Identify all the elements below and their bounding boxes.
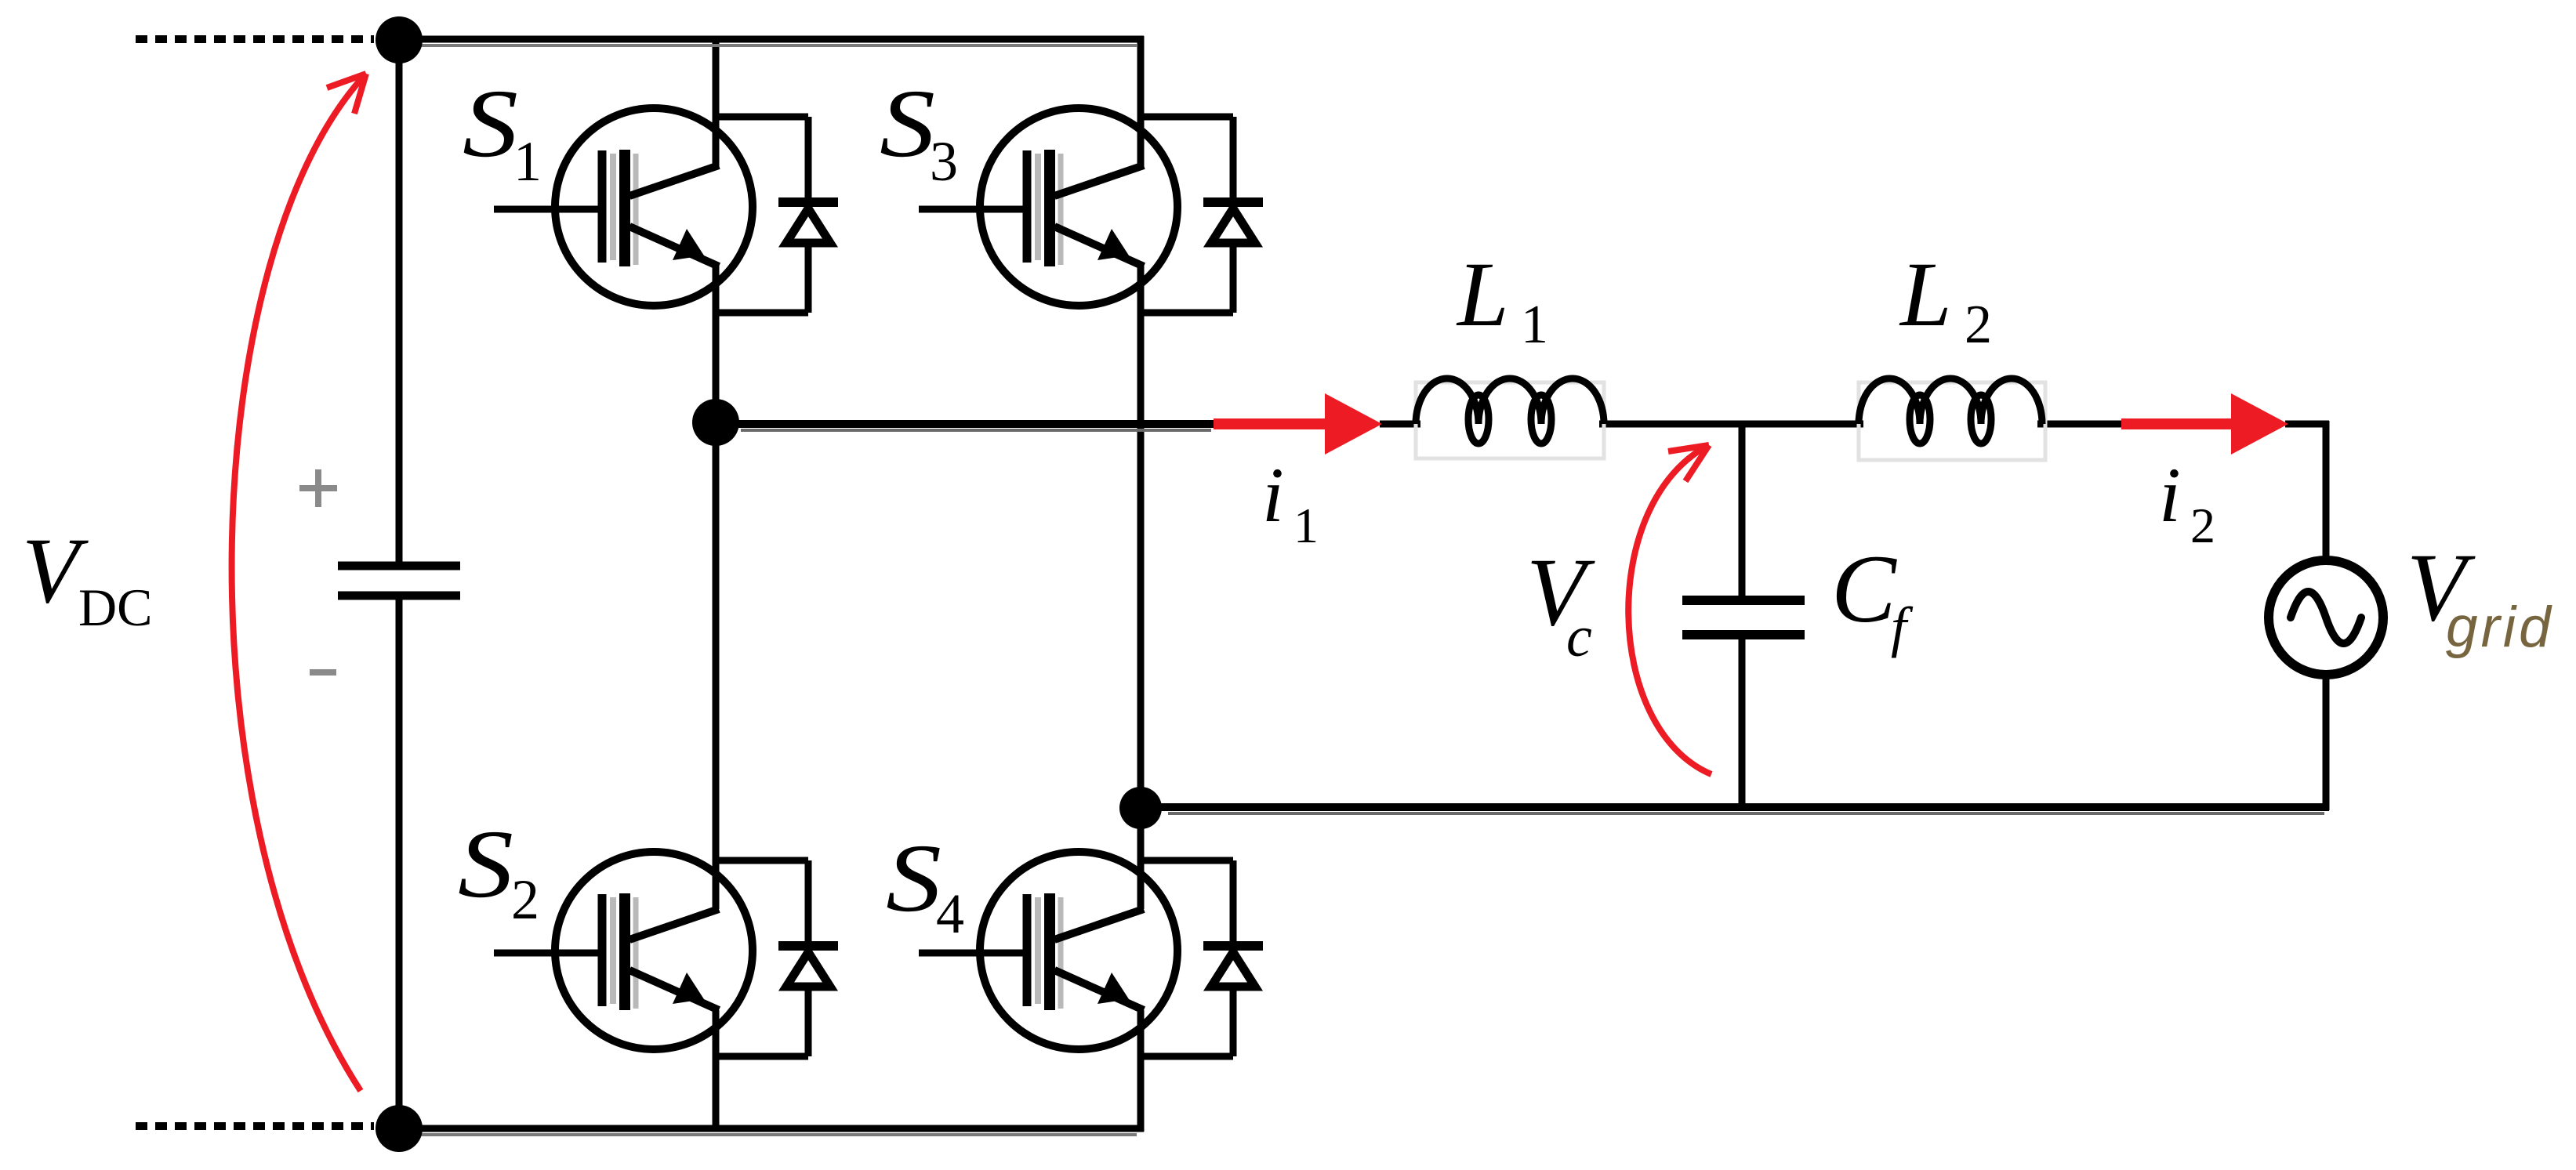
wire right leg bottom segment bbox=[1137, 1010, 1145, 1132]
inductor L2 bbox=[1859, 379, 2042, 444]
svg-text:1: 1 bbox=[1293, 498, 1319, 553]
minus sign bbox=[310, 669, 336, 676]
wire bottom output return B shading bbox=[1168, 812, 2324, 815]
svg-text:4: 4 bbox=[936, 882, 964, 945]
capacitor CDC plates bbox=[338, 566, 460, 596]
inductor L1 bounding box bbox=[1416, 382, 1604, 458]
wire i2 arrow to grid corner bbox=[2285, 421, 2329, 428]
transistor S2 IGBT bbox=[494, 852, 753, 1049]
svg-text:S: S bbox=[880, 70, 935, 177]
transistor S4 IGBT bbox=[919, 852, 1177, 1049]
wire left leg collector segment bbox=[713, 36, 720, 167]
svg-text:1: 1 bbox=[1521, 295, 1548, 355]
plus sign bbox=[299, 469, 337, 507]
svg-text:L: L bbox=[1899, 243, 1952, 346]
current arrow i1 bbox=[1214, 393, 1382, 455]
wire right leg middle segment bbox=[1137, 265, 1145, 909]
inductor L2 bounding box bbox=[1859, 382, 2045, 460]
wire right leg collector segment bbox=[1137, 36, 1145, 167]
diode D1 bbox=[716, 117, 838, 313]
wire phase output A shading bbox=[741, 429, 1211, 432]
svg-text:i: i bbox=[1262, 451, 1284, 538]
svg-text:S: S bbox=[463, 70, 518, 177]
wire grid branch lower bbox=[2323, 673, 2330, 810]
svg-text:i: i bbox=[2159, 451, 2181, 538]
wire bottom output return B bbox=[1141, 803, 2329, 811]
wire L2 to i2 arrow bbox=[2037, 421, 2126, 428]
wire L1 left lead bbox=[1380, 421, 1420, 428]
diode D4 bbox=[1141, 860, 1263, 1056]
wire DC bus lower segment bbox=[396, 596, 403, 1132]
svg-text:2: 2 bbox=[2190, 498, 2215, 553]
node top-left DC+ bbox=[376, 16, 423, 63]
svg-text:3: 3 bbox=[930, 130, 958, 193]
diode D3 bbox=[1141, 117, 1263, 313]
wire Cf branch upper bbox=[1739, 424, 1746, 600]
wire bottom rail DC- bbox=[396, 1125, 1144, 1132]
transistor S3 IGBT bbox=[919, 108, 1177, 306]
svg-text:L: L bbox=[1456, 243, 1509, 346]
voltage arrow VDC (red arc) bbox=[232, 74, 366, 1091]
node B right leg midpoint bbox=[1119, 787, 1162, 829]
svg-text:2: 2 bbox=[1965, 295, 1992, 355]
svg-text:S: S bbox=[458, 810, 513, 918]
voltage arrow Vc (red arc) bbox=[1628, 445, 1711, 774]
wire top rail shading bbox=[404, 44, 1137, 47]
svg-text:DC: DC bbox=[78, 578, 152, 637]
svg-text:1: 1 bbox=[513, 130, 542, 193]
wire bottom rail shading bbox=[404, 1133, 1137, 1136]
wire bottom dashed DC- lead-in bbox=[136, 1122, 374, 1130]
svg-text:S: S bbox=[886, 824, 942, 932]
wire phase output A bbox=[716, 420, 1217, 428]
wire top dashed DC+ lead-in bbox=[136, 35, 374, 43]
wire left leg middle segment bbox=[713, 265, 720, 909]
wire grid branch upper bbox=[2323, 421, 2330, 562]
AC source Vgrid bbox=[2269, 560, 2383, 675]
transistor S1 IGBT bbox=[494, 108, 753, 306]
wire L1 to L2 through node C bbox=[1599, 421, 1863, 428]
node bottom-left DC- bbox=[376, 1105, 423, 1152]
svg-text:C: C bbox=[1831, 535, 1897, 643]
wire DC bus upper segment bbox=[396, 36, 403, 566]
diode D2 bbox=[716, 860, 838, 1056]
wire top rail DC+ bbox=[396, 36, 1144, 43]
svg-text:c: c bbox=[1566, 605, 1592, 669]
capacitor Cf plates bbox=[1682, 600, 1805, 635]
wire Cf branch lower bbox=[1739, 635, 1746, 810]
node A left leg midpoint bbox=[692, 399, 739, 446]
svg-text:2: 2 bbox=[511, 868, 539, 931]
wire left leg bottom segment bbox=[713, 1010, 720, 1132]
current arrow i2 bbox=[2121, 393, 2288, 455]
inductor L1 bbox=[1416, 379, 1604, 444]
svg-text:grid: grid bbox=[2446, 596, 2554, 659]
